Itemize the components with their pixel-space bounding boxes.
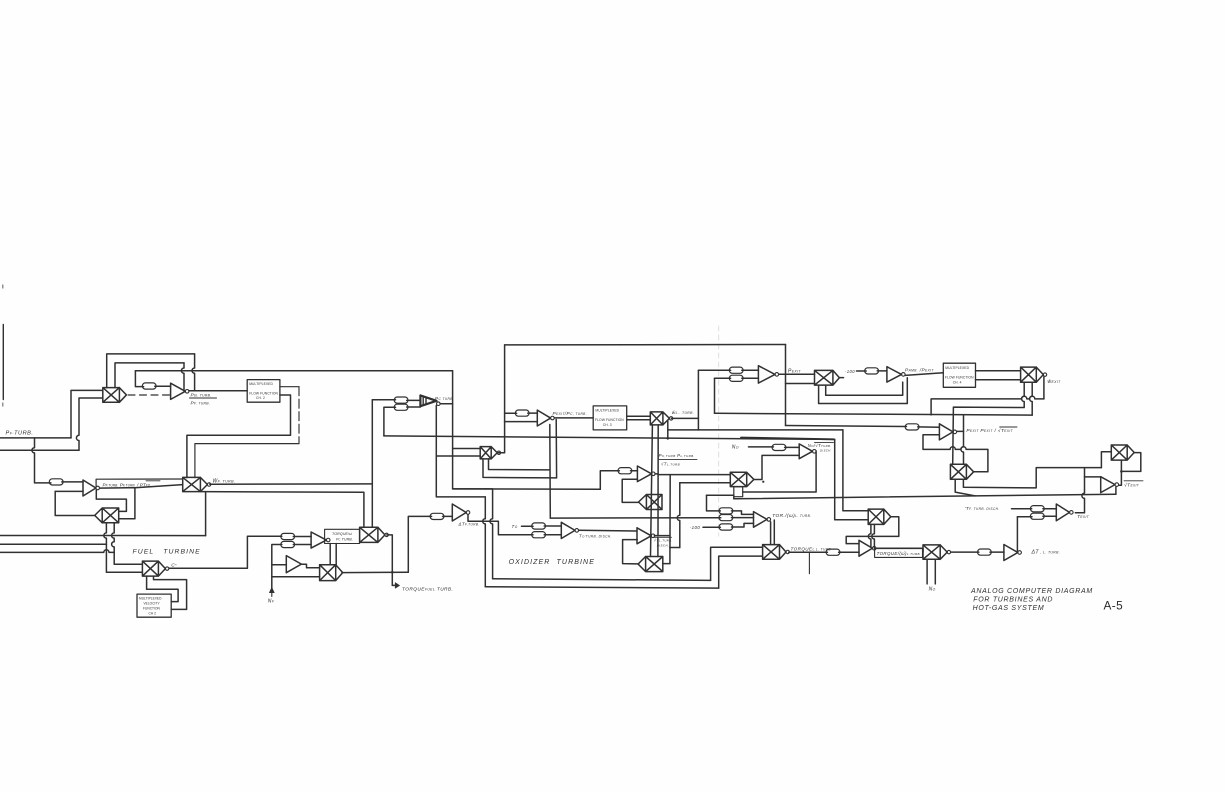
multiplier M_cstar C* mult: [142, 561, 165, 576]
op-amp P_exit/P_C amp: [537, 410, 550, 426]
wire C* pin A: [147, 576, 179, 602]
wire E_tq to TORQw amp: [839, 551, 859, 553]
wire L_mid drop: [835, 439, 869, 519]
wire P_exit/P_C out: [554, 417, 593, 419]
svg-text:VELOCITY: VELOCITY: [144, 602, 161, 606]
page edge mark left: [2, 325, 4, 400]
wire M_pc out riser: [497, 345, 504, 453]
wire v452 top corner: [453, 371, 486, 489]
op-amp T1 torque amp: [311, 532, 326, 548]
wire PF-turb input line 2: [0, 449, 79, 451]
wire line 345 top: [505, 344, 786, 346]
wire drop to pot E_f2: [135, 371, 143, 387]
wire 785 branch to Mexit: [786, 383, 815, 385]
overline sqrtTexit2: [1124, 480, 1143, 482]
potentiometer E_t1b: [281, 541, 295, 547]
wire E_pex to amp: [918, 426, 940, 428]
wire e2 feed segment: [719, 517, 721, 519]
wire No wire: [749, 446, 774, 448]
wire TOR out down B: [773, 520, 775, 545]
wire torque arrow wire: [392, 584, 395, 586]
wire CH2 out upper: [280, 386, 299, 388]
potentiometer E_pe1: [729, 367, 743, 373]
wire dtf riser: [408, 516, 431, 572]
svg-text:OXIDIZER TURBINE: OXIDIZER TURBINE: [509, 559, 595, 566]
wire E_pc2 to amp: [407, 406, 421, 408]
wire WL out drop: [667, 420, 669, 438]
wire plus100 wire: [703, 526, 720, 528]
wire line 425 to pot: [786, 426, 907, 427]
wire M_36 pin A: [955, 479, 975, 496]
multiplier M_wf fuel flow mult: [183, 477, 208, 491]
wire M2 pin down B: [934, 559, 936, 584]
potentiometer E_pce: [515, 410, 529, 416]
wire E_pcd to amp: [631, 470, 638, 472]
wire bus L1: [0, 535, 206, 537]
junction J_no: [762, 481, 764, 483]
svg-text:MULTIPLEXED: MULTIPLEXED: [595, 409, 619, 413]
op-amp F2 divider amp: [171, 383, 186, 399]
wire M_exit fb B: [826, 382, 903, 395]
wire line 430 long: [698, 429, 843, 431]
overline PTFD: [146, 480, 160, 482]
multiplier M_no divider: [730, 472, 754, 486]
multiplier M_f1 fuel pressure mult: [103, 388, 127, 403]
wire M_exit out: [840, 377, 844, 379]
op-amp F1 amp: [83, 480, 96, 496]
wire bus L3: [0, 550, 114, 553]
wire M_f1 top pin B: [115, 363, 184, 388]
svg-text:ANALOG COMPUTER DIAGRAM: ANALOG COMPUTER DIAGRAM: [970, 588, 1093, 595]
svg-text:TEXIT: TEXIT: [1077, 514, 1090, 519]
wire M_pc lower input: [436, 455, 480, 457]
potentiometer E_tor3: [719, 524, 733, 530]
wire line 482 to Mno: [680, 482, 731, 484]
function box MULTIPLEXED FLOW FUNCTION CH4: [943, 363, 975, 387]
svg-text:'TF. TURB. DISCH.: 'TF. TURB. DISCH.: [965, 506, 1000, 511]
op-amp N_o/sqrtT amp: [799, 444, 812, 459]
junction J_tqf: [391, 571, 394, 574]
wire W_exit pin A: [953, 382, 1024, 464]
wire T1 box pins down B: [335, 544, 337, 565]
potentiometer E_t1a: [281, 533, 295, 539]
wire PAMB out: [905, 373, 943, 376]
wire M_x out path: [846, 517, 899, 544]
wire M_lp pin B down: [112, 523, 143, 564]
wire WF out line: [210, 483, 372, 485]
wire DTF out path: [468, 515, 533, 535]
wire e3 to TOR: [732, 523, 754, 527]
potentiometer E_dtf: [430, 513, 444, 519]
svg-text:TORQUEL.L. TURB: TORQUEL.L. TURB: [791, 547, 832, 552]
svg-text:FLOW FUNCTION: FLOW FUNCTION: [595, 418, 624, 422]
wire tab left drop: [733, 497, 735, 499]
wire E_pce to amp: [528, 412, 538, 414]
potentiometer E_te2: [1030, 513, 1044, 519]
wire line 413 long: [715, 413, 1033, 415]
svg-text:√TL,TURB: √TL,TURB: [661, 462, 680, 467]
svg-text:NO/√TTURB.: NO/√TTURB.: [808, 443, 832, 448]
wire amp1 out to vdrop: [658, 474, 730, 476]
svg-text:√TL,TURB.: √TL,TURB.: [654, 538, 673, 543]
svg-text:CH. 3: CH. 3: [603, 423, 612, 427]
op-amp DT_L amp: [1004, 545, 1018, 561]
label frame top line: [96, 479, 183, 486]
wire F1 feedback down: [55, 491, 95, 515]
potentiometer E_no: [772, 444, 786, 450]
svg-text:CH. 4: CH. 4: [953, 380, 962, 384]
wire M_tqf out down: [387, 535, 393, 586]
wire CH4 out upper: [976, 370, 1021, 372]
function box label frame TORQUE/w PC: [325, 529, 360, 543]
wire C* pin B: [154, 576, 187, 609]
wire amp fb loop: [923, 435, 988, 472]
wire M_f1 out dashes: [128, 394, 171, 396]
wire v679 node: [677, 483, 680, 548]
wire E_dtl to amp: [990, 551, 1004, 553]
wire feedback v at 184: [181, 363, 184, 391]
svg-text:CH 2: CH 2: [149, 611, 157, 615]
wire pc exit pot feed: [505, 412, 517, 414]
function box MULTIPLEXED VELOCITY FUNCTION CH2: [137, 594, 171, 617]
wire PC out right: [440, 403, 453, 405]
arrowhead torque fuel: [395, 583, 399, 589]
overline sqrtTexit: [1000, 426, 1017, 428]
potentiometer E_pcd: [618, 468, 632, 474]
wire E_dtf to amp: [443, 515, 453, 517]
fraction bar F2: [190, 397, 217, 399]
multiplier M_osq oxid sq mult: [638, 557, 663, 572]
svg-text:TO: TO: [512, 524, 518, 529]
wire F1 fb in: [55, 490, 83, 492]
wire tab left fb: [707, 494, 734, 496]
wire Texit out riser: [1075, 477, 1084, 513]
svg-text:·100: ·100: [690, 525, 701, 530]
wire line 578: [493, 579, 711, 581]
multiplier M_pcd divider mult: [639, 495, 663, 510]
wire line430 drop: [843, 430, 868, 511]
wire M_lo2 out: [342, 571, 408, 573]
function box label frame torque/w: [875, 549, 923, 558]
wire v698: [697, 370, 699, 430]
wire amp2 node up: [670, 547, 680, 549]
wire H1 return: [931, 396, 1044, 415]
wire WL 430 line: [668, 429, 699, 431]
wire M_wf bottom drop: [205, 492, 207, 536]
wire line 489 to pot: [600, 471, 619, 489]
multiplier M_pc multiplier: [480, 447, 497, 459]
wire M_pc fb B: [489, 459, 550, 470]
wire sqrt return up: [1115, 487, 1117, 494]
potentiometer E_to2: [532, 532, 546, 538]
wire F1 out loop: [96, 490, 126, 512]
wire E_100 to amp: [877, 370, 887, 372]
wire F2 out to CH2 box: [189, 390, 247, 392]
op-amp P_AMB/P_EXIT amp: [887, 367, 902, 382]
multiplier M_exit mult: [815, 370, 840, 385]
svg-text:FOR TURBINES AND: FOR TURBINES AND: [973, 597, 1053, 604]
potentiometer E_tor1: [719, 508, 733, 514]
svg-text:TORQUE/ω̇: TORQUE/ω̇: [332, 532, 353, 536]
wire M_osq right link: [663, 563, 670, 565]
wire CH2 out upper drop: [298, 387, 300, 444]
wire amp2 fb left: [623, 540, 639, 564]
potentiometer E_f1: [49, 479, 63, 485]
potentiometer E_pex: [905, 424, 919, 430]
junction J_sq: [1120, 470, 1123, 473]
wire line580 riser: [711, 547, 763, 580]
wire L_mid heavy segment: [741, 438, 834, 440]
function box M_no servo tab: [734, 487, 743, 497]
wire M_sq loop: [1121, 453, 1140, 472]
wire M_no out riser: [754, 455, 799, 479]
wire To out: [579, 529, 637, 532]
wire E_no to amp: [785, 446, 800, 448]
wire W_exit pin B: [1030, 382, 1033, 415]
multiplier M_x mult: [868, 509, 891, 524]
wire E_pc1 to amp: [407, 399, 421, 401]
wire M_tq out: [789, 551, 828, 553]
wire M_lp pin A to C* lower: [106, 544, 142, 572]
wire pexit/pc lower input: [505, 421, 538, 423]
wire 100 to pot: [857, 370, 867, 372]
svg-text:FLOW FUNCTION: FLOW FUNCTION: [945, 375, 974, 379]
svg-text:MULTIPLEXED: MULTIPLEXED: [139, 597, 162, 601]
multiplier M_36 mult: [950, 464, 973, 479]
wire CH2 out lower: [187, 395, 291, 478]
wire NF stub: [271, 593, 273, 597]
potentiometer E_tor2: [719, 515, 733, 521]
svg-text:PF-TURB.: PF-TURB.: [6, 430, 34, 436]
op-amp P_exit amp: [758, 366, 775, 383]
wire M_sq pin down: [1120, 460, 1122, 471]
wire e1 to TOR: [732, 511, 754, 515]
wire E_to2 to amp: [544, 534, 561, 536]
op-amp T2 inverter: [286, 556, 301, 573]
wire v452 drop2: [486, 489, 493, 579]
wire E_pe2 to amp: [742, 377, 759, 379]
wire C* out: [169, 536, 282, 568]
wire WL pin A down: [651, 425, 653, 557]
potentiometer E_100: [865, 368, 879, 374]
wire riser to M_f1 upper: [71, 390, 103, 438]
op-amp T_o amp: [561, 522, 575, 538]
wire line 586: [485, 587, 718, 588]
wire M_pc upper input: [453, 448, 481, 450]
wire M_f1 top pin A: [107, 354, 195, 388]
wire T1 box pins down A: [329, 544, 331, 565]
svg-text:HOT-GAS SYSTEM: HOT-GAS SYSTEM: [973, 605, 1045, 612]
wire PF-turb input line: [0, 437, 71, 439]
potentiometer E_to1: [532, 523, 546, 529]
wire E_t1b to T1: [293, 544, 311, 546]
svg-text:TO'TURB. DISCH.: TO'TURB. DISCH.: [579, 533, 612, 538]
wire W_exit out drop: [1043, 377, 1045, 399]
wire line A: [550, 517, 720, 519]
wire NF branch amp: [272, 564, 287, 566]
wire line 489-491: [453, 488, 601, 490]
op-amp PC/PL sqrt amp: [637, 466, 651, 482]
wire M_pc fb A: [483, 459, 556, 478]
op-amp sqrt TL disch amp: [637, 528, 651, 544]
function box MULTIPLEXED FLOW FUNCTION CH3: [593, 406, 627, 430]
wire amp2 out right: [654, 535, 669, 537]
wire CH2 out upper run: [195, 444, 299, 478]
svg-text:PC,TURB PL,TURB.: PC,TURB PL,TURB.: [659, 453, 695, 458]
multiplier M_tqf fuel torque mult: [360, 527, 385, 542]
wire feedback v at 194.6: [192, 354, 195, 391]
wire NF branch mult: [272, 576, 320, 578]
junction J_lmid_wl: [667, 437, 670, 440]
svg-text:DISCH.: DISCH.: [820, 448, 832, 452]
wire v436 drop: [483, 497, 486, 587]
wire v714: [714, 378, 716, 413]
multiplier M_tq torque mult: [763, 545, 786, 560]
wire E_to1 to amp: [544, 525, 561, 527]
wire pexitpexit out: [957, 430, 964, 432]
potentiometer E_pc1: [394, 397, 408, 403]
svg-text:CH. 2: CH. 2: [256, 396, 265, 400]
svg-text:·100: ·100: [845, 369, 855, 374]
potentiometer E_dtl: [978, 549, 992, 555]
wire TOR out down A: [770, 522, 772, 545]
wire amp2 circle to M_osq: [657, 537, 659, 556]
multiplier M_lp left mult: [95, 508, 119, 523]
wire v556 feedback: [555, 420, 557, 478]
fraction bar oxid: [659, 458, 697, 460]
wire line588 riser: [719, 556, 763, 588]
wire CH4 out lower: [976, 379, 1021, 381]
wire E_pe1 to amp: [742, 369, 759, 371]
wire M_x pin down A: [868, 524, 871, 547]
potentiometer E_te1: [1030, 506, 1044, 512]
arrowhead NF: [269, 587, 274, 592]
wire CH3 out upper: [627, 415, 651, 417]
wire M_exit fb A: [819, 378, 908, 404]
svg-text:PC TURB: PC TURB: [435, 396, 453, 401]
wire M2 out: [951, 551, 979, 553]
wire long sqrt return: [734, 494, 1116, 499]
wire E_f2 to amp F2: [155, 385, 171, 387]
multiplier M_wexit mult: [1021, 367, 1044, 382]
svg-text:ΔTF.TURB.: ΔTF.TURB.: [458, 522, 480, 527]
op-amp TOR amp: [754, 512, 768, 528]
wire PC out down: [436, 406, 485, 497]
svg-text:FUEL TURBINE: FUEL TURBINE: [133, 548, 201, 555]
op-amp T_exit amp: [1056, 504, 1069, 521]
multiplier M_wl oxidizer flow mult: [650, 412, 669, 425]
wire Mlp lower branch: [119, 488, 135, 519]
wire NF riser: [272, 545, 282, 590]
svg-text:A-5: A-5: [1104, 599, 1124, 613]
potentiometer E_pe2: [729, 375, 743, 381]
wire PC input line: [372, 399, 395, 401]
wire e te2 feed: [1017, 516, 1032, 518]
potentiometer E_f2: [142, 383, 156, 389]
wire WL out: [672, 417, 699, 419]
wire v963 drop: [961, 415, 964, 464]
wire e2 to TOR: [732, 517, 754, 519]
wire TORQw out: [876, 548, 923, 552]
svg-text:MULTIPLEXED: MULTIPLEXED: [945, 366, 969, 370]
potentiometer E_tq: [826, 549, 840, 555]
op-amp DT_F amp: [452, 504, 466, 521]
wire E_t1a to T1: [293, 536, 311, 538]
wire e te2 to amp: [1043, 515, 1056, 517]
wire v549 feedback: [549, 425, 552, 519]
wire M_lp pin A down: [104, 523, 107, 545]
wire DTL out up: [1017, 517, 1032, 551]
wire To wire: [522, 525, 534, 527]
wire M_tq out stub: [808, 552, 810, 574]
overline Texit: [1077, 511, 1084, 513]
wire WL pin B down: [657, 425, 659, 535]
wire e1 pexit feed: [698, 369, 730, 371]
multiplier M2 mult: [923, 545, 947, 559]
wire long line PC-return y370: [135, 370, 452, 372]
wire M_pcd fb loop: [622, 479, 638, 502]
wire bus L2: [0, 543, 106, 545]
wire e2 pexit feed: [715, 377, 731, 379]
wire amp1 drop long: [669, 475, 671, 564]
op-amp PC turb amp (heavy): [420, 395, 436, 406]
wire sqrt amp upper input: [1085, 468, 1101, 477]
wire PF junction drop: [32, 438, 51, 483]
wire e te1 to amp: [1043, 508, 1056, 510]
wire Msq input up: [1101, 452, 1111, 468]
op-amp sqrtTexit amp: [1101, 477, 1115, 493]
svg-text:PC TURB.: PC TURB.: [336, 538, 353, 542]
overline no/sqrt: [815, 441, 834, 443]
wire T2 out: [301, 564, 319, 568]
wire sqrt amp out up: [1119, 471, 1122, 485]
multiplier M_lo2 lower fuel mult: [320, 565, 343, 581]
scan crease line: [718, 326, 720, 536]
svg-text:FUNCTION: FUNCTION: [143, 607, 161, 611]
wire M_x pin down B: [872, 524, 875, 548]
wire TF wire: [1012, 508, 1032, 510]
overline sqrtT: [654, 536, 672, 538]
wire fb drop to e1: [707, 495, 721, 511]
wire riser to M_f1 lower: [76, 398, 102, 450]
svg-text:MULTIPLEXED: MULTIPLEXED: [249, 382, 273, 386]
wire E_f1 to F1 amp: [62, 481, 83, 483]
wire WF main wire: [100, 485, 183, 489]
multiplier M_sq mult: [1111, 445, 1134, 460]
wire M2 pin down A: [926, 559, 928, 584]
function box MULTIPLEXED FLOW FUNCTION CH2: [247, 380, 280, 403]
wire amp1 out stub: [655, 473, 658, 475]
wire P_exit out: [779, 373, 815, 375]
wire No amp out down: [743, 451, 816, 492]
wire E_pc2 feed: [384, 407, 396, 436]
wire WF lower line: [200, 492, 364, 528]
op-amp TORQUE/w amp: [859, 540, 872, 556]
wire v372 long: [371, 400, 373, 528]
op-amp PexitPexit amp: [939, 424, 953, 440]
wire L_mid long line: [384, 436, 835, 440]
potentiometer E_pc2: [394, 404, 408, 410]
wire v785 drop: [785, 345, 787, 426]
svg-text:FLOW FUNCTION: FLOW FUNCTION: [249, 391, 278, 395]
wire M_36 pin B: [963, 468, 1101, 488]
wire CH3 out lower: [627, 419, 651, 421]
svg-text:TORQUE/(ω̇)L.TURB: TORQUE/(ω̇)L.TURB: [877, 551, 920, 556]
